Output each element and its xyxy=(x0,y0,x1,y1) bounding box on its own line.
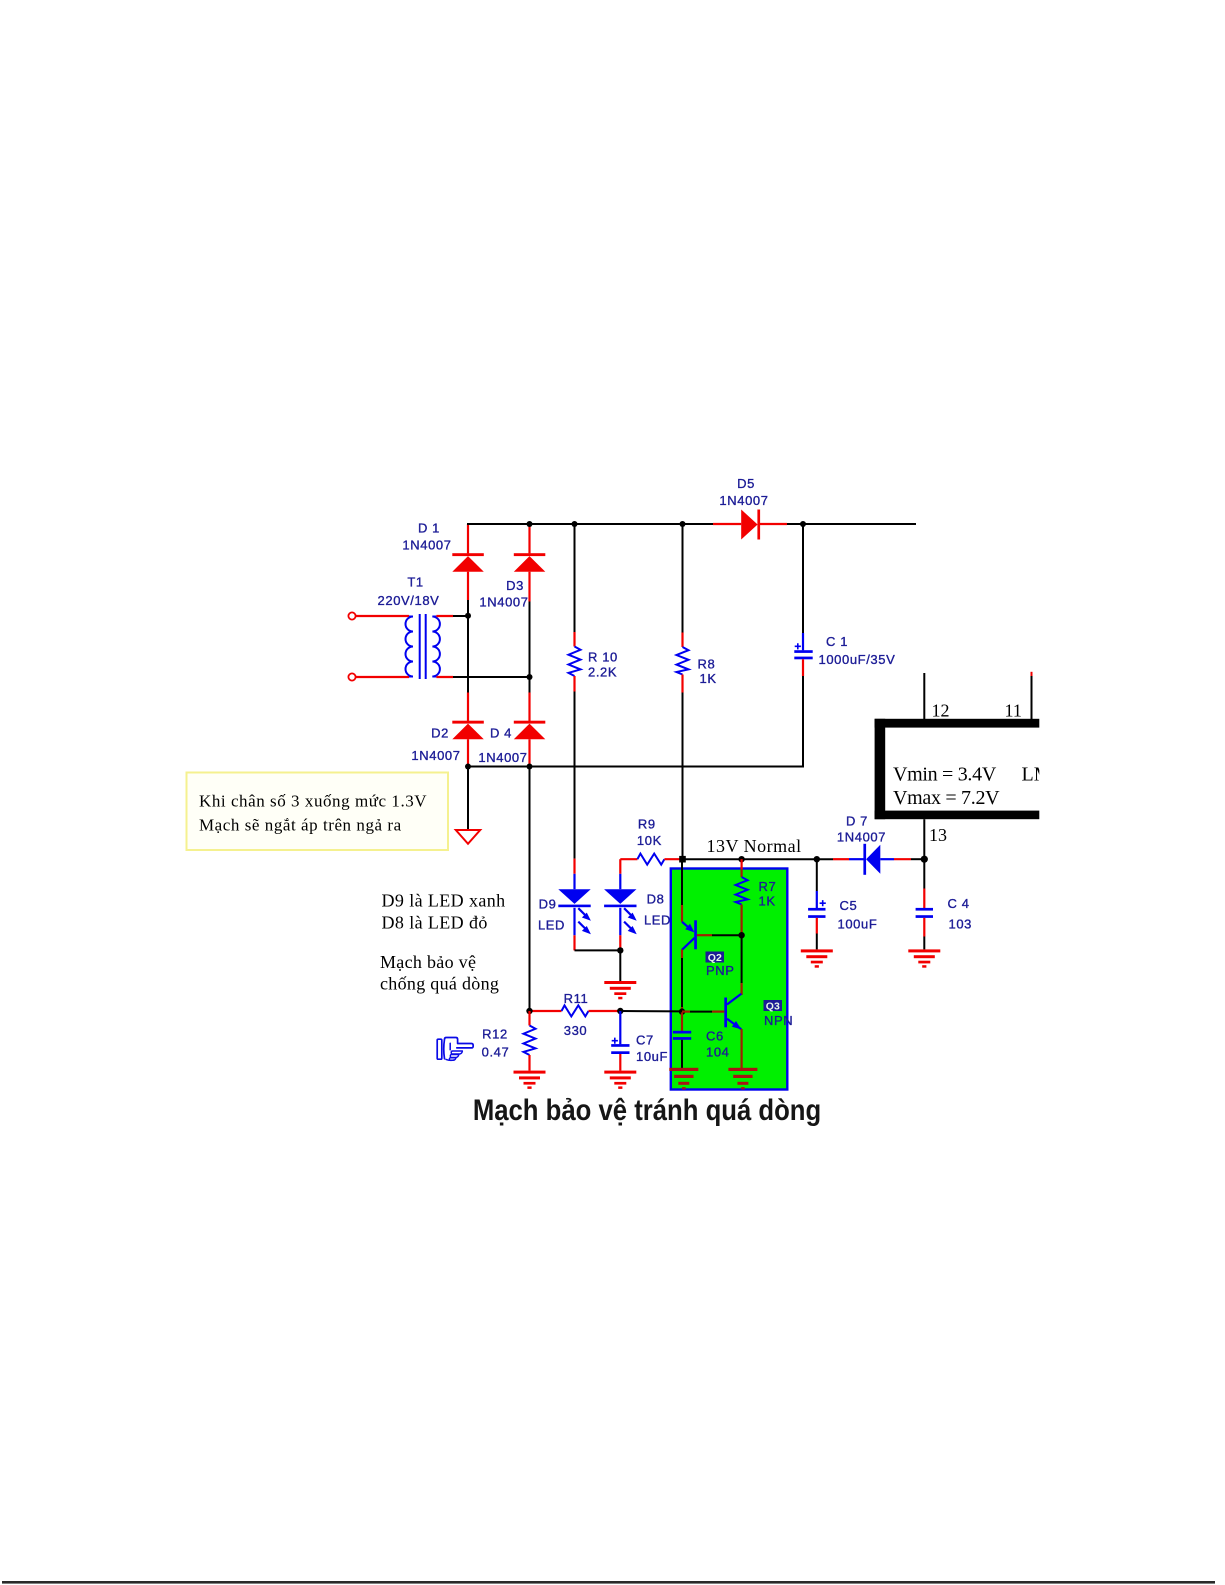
protection circuit green box xyxy=(671,869,788,1090)
node secondary top junction xyxy=(465,613,471,619)
svg-text:D8 là LED đỏ: D8 là LED đỏ xyxy=(382,913,488,933)
svg-text:D 1: D 1 xyxy=(418,521,440,536)
resistor R7 1K xyxy=(736,859,777,935)
svg-text:Mạch sẽ ngắt áp trên ngả ra: Mạch sẽ ngắt áp trên ngả ra xyxy=(199,816,402,835)
svg-text:NPN: NPN xyxy=(764,1013,793,1028)
resistor R12 0.47 xyxy=(482,1011,536,1071)
node R11 right / C7 xyxy=(617,1008,623,1014)
svg-text:C 4: C 4 xyxy=(948,896,970,911)
wire top rail left xyxy=(467,523,713,525)
node top rail R8 xyxy=(680,521,686,527)
wire top rail right xyxy=(787,523,916,525)
wire 13V normal rail xyxy=(683,858,834,860)
svg-text:1N4007: 1N4007 xyxy=(719,493,768,508)
LED D8 xyxy=(604,859,671,950)
capacitor C4 103 xyxy=(916,859,972,949)
ground C5 xyxy=(801,949,833,967)
svg-text:Vmax = 7.2V: Vmax = 7.2V xyxy=(893,787,1000,809)
wire transformer secondary bottom lead xyxy=(436,676,453,678)
svg-text:Q2: Q2 xyxy=(708,952,722,964)
wire D4 column down to R11 xyxy=(529,767,531,1012)
svg-text:C 1: C 1 xyxy=(826,634,848,649)
resistor R9 10K xyxy=(620,817,682,865)
node bottom rail D2 xyxy=(465,764,471,770)
wire LED join to ground xyxy=(619,950,621,981)
wire NPN emitter to ground xyxy=(740,1029,742,1068)
wire ground stub xyxy=(467,767,469,830)
svg-text:D3: D3 xyxy=(506,578,524,593)
svg-text:1N4007: 1N4007 xyxy=(402,538,451,553)
ground C4 xyxy=(908,949,940,967)
svg-text:Mạch bảo vệ: Mạch bảo vệ xyxy=(380,952,476,972)
svg-text:R8: R8 xyxy=(698,657,716,672)
svg-text:100uF: 100uF xyxy=(838,917,878,932)
wire LED cathodes join xyxy=(575,949,621,951)
svg-text:D5: D5 xyxy=(737,476,755,491)
wire secondary bottom to D3/D4 column xyxy=(453,676,530,678)
transistor Q2 PNP xyxy=(682,920,735,978)
svg-text:Mạch bảo vệ tránh quá dòng: Mạch bảo vệ tránh quá dòng xyxy=(473,1093,821,1126)
svg-text:R9: R9 xyxy=(638,817,656,832)
svg-text:1000uF/35V: 1000uF/35V xyxy=(819,652,896,667)
wire D7 anode side xyxy=(880,858,894,860)
wire D5 anode lead xyxy=(713,523,741,525)
resistor R11 330 xyxy=(530,991,621,1038)
hand pointer icon xyxy=(437,1038,473,1061)
svg-text:1N4007: 1N4007 xyxy=(837,830,886,845)
svg-text:D8: D8 xyxy=(647,892,665,907)
svg-text:C7: C7 xyxy=(636,1033,654,1048)
svg-text:C6: C6 xyxy=(706,1029,724,1044)
node LED join xyxy=(617,947,623,953)
wire bottom rail xyxy=(468,766,804,768)
node 13V rail C5 xyxy=(814,856,820,862)
caption xyxy=(473,1093,821,1126)
svg-text:12: 12 xyxy=(932,701,950,721)
node PNP base / R7 xyxy=(738,932,744,938)
diode D7 1N4007 xyxy=(837,814,886,875)
ground C7 xyxy=(604,1071,636,1089)
wire R8 column into box (PNP emitter feed) xyxy=(681,859,683,922)
svg-text:330: 330 xyxy=(564,1023,588,1038)
node top rail C1 xyxy=(800,521,806,527)
svg-text:11: 11 xyxy=(1005,701,1022,721)
capacitor C6 104 xyxy=(673,1012,730,1068)
svg-text:C5: C5 xyxy=(840,898,858,913)
ground R12 xyxy=(514,1071,546,1089)
diode D1 1N4007 xyxy=(402,521,483,616)
ground LED xyxy=(604,981,636,999)
wire R7 node down to NPN collector xyxy=(741,935,743,995)
pin 11 wire xyxy=(1031,672,1033,719)
diode D2 1N4007 xyxy=(411,616,483,767)
node R11 left / R12 xyxy=(526,1008,532,1014)
wire transformer secondary top lead xyxy=(436,615,453,617)
svg-text:1K: 1K xyxy=(700,671,717,686)
pin 13 wire xyxy=(923,819,925,859)
svg-text:Khi chân số 3 xuống mức 1.3V: Khi chân số 3 xuống mức 1.3V xyxy=(199,792,427,811)
wire PNP base to R7 node xyxy=(697,934,742,936)
svg-text:LED: LED xyxy=(644,913,671,928)
svg-text:D 7: D 7 xyxy=(846,814,868,829)
svg-text:103: 103 xyxy=(949,917,973,932)
svg-text:10uF: 10uF xyxy=(636,1049,668,1064)
svg-text:Q3: Q3 xyxy=(766,1000,780,1012)
svg-text:LED: LED xyxy=(538,918,565,933)
node 13V rail R7 xyxy=(738,856,744,862)
diode D3 1N4007 xyxy=(479,524,545,677)
resistor R10 2.2K xyxy=(569,524,618,859)
svg-text:R 10: R 10 xyxy=(588,650,618,665)
svg-text:R12: R12 xyxy=(482,1027,508,1042)
svg-text:D9 là LED xanh: D9 là LED xanh xyxy=(382,891,506,911)
IC regulator box xyxy=(875,719,1052,819)
node 13V rail R8 xyxy=(679,856,686,863)
wire D5 cathode lead xyxy=(760,523,787,525)
svg-text:1N4007: 1N4007 xyxy=(478,750,527,765)
svg-text:0.47: 0.47 xyxy=(482,1045,510,1060)
node bottom rail D4 xyxy=(527,764,533,770)
wire NPN base xyxy=(682,1010,724,1012)
diode D5 1N4007 xyxy=(719,476,768,540)
svg-text:chống quá dòng: chống quá dòng xyxy=(380,974,499,994)
node pin13 junction xyxy=(921,856,928,863)
note box (yellow) xyxy=(187,773,449,851)
svg-text:T1: T1 xyxy=(407,575,423,590)
capacitor C1 1000uF/35V xyxy=(794,524,895,767)
transformer T1 xyxy=(348,575,440,681)
node top rail R10 xyxy=(572,521,578,527)
svg-text:13V Normal: 13V Normal xyxy=(707,836,802,856)
transistor Q3 NPN xyxy=(724,994,793,1030)
svg-text:2.2K: 2.2K xyxy=(588,665,617,680)
svg-text:Vmin = 3.4V: Vmin = 3.4V xyxy=(893,764,997,786)
svg-text:10K: 10K xyxy=(637,833,662,848)
svg-text:R11: R11 xyxy=(564,991,589,1006)
svg-text:1N4007: 1N4007 xyxy=(411,748,460,763)
svg-text:D9: D9 xyxy=(539,897,557,912)
svg-text:D 4: D 4 xyxy=(490,726,512,741)
svg-text:D2: D2 xyxy=(431,726,449,741)
node NPN base / C6 xyxy=(679,1008,685,1014)
svg-text:13: 13 xyxy=(929,825,947,845)
wire PNP collector column down xyxy=(681,950,683,1012)
svg-text:1N4007: 1N4007 xyxy=(479,595,528,610)
svg-text:1K: 1K xyxy=(759,894,776,909)
svg-text:PNP: PNP xyxy=(706,963,735,978)
resistor R8 1K xyxy=(677,524,717,859)
bottom page rule xyxy=(2,1581,1215,1584)
ground arrow (output return) xyxy=(456,830,480,844)
wire secondary top to bridge xyxy=(453,615,468,617)
node top rail D3 xyxy=(527,521,533,527)
svg-text:R7: R7 xyxy=(759,879,777,894)
diode D4 1N4007 xyxy=(478,677,545,767)
ground NPN emitter (in box) xyxy=(728,1068,757,1090)
capacitor C5 100uF xyxy=(808,859,877,949)
pin 12 wire xyxy=(923,673,925,719)
ground C6 (in box) xyxy=(669,1068,698,1090)
capacitor C7 10uF xyxy=(611,1011,668,1071)
LED D9 xyxy=(538,859,591,951)
svg-text:220V/18V: 220V/18V xyxy=(378,593,440,608)
svg-text:104: 104 xyxy=(706,1045,730,1060)
wire R11 to NPN base xyxy=(620,1010,682,1012)
wire D7 cathode side xyxy=(833,858,849,860)
node secondary bottom junction xyxy=(527,674,533,680)
